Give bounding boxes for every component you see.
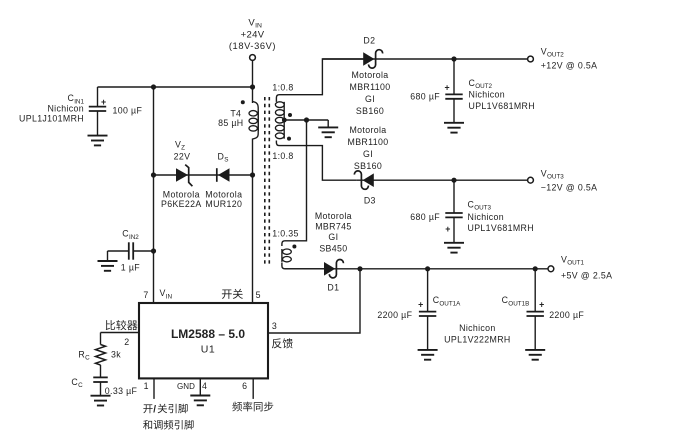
wire D1 row — [285, 268, 548, 270]
svg-text:+: + — [445, 224, 451, 234]
label CC value — [105, 386, 138, 396]
svg-text:7: 7 — [143, 290, 148, 300]
label COUT3 part — [468, 223, 534, 233]
ground under CIN2 — [98, 261, 118, 271]
label DS — [218, 151, 229, 163]
label VZ — [175, 139, 185, 151]
svg-text:1:0.8: 1:0.8 — [272, 83, 293, 93]
label VIN voltage — [241, 30, 265, 41]
svg-text:6: 6 — [242, 381, 247, 391]
svg-text:1: 1 — [144, 381, 149, 391]
zener VZ P6KE22A — [176, 165, 192, 187]
label D2 Motorola — [351, 70, 388, 80]
svg-text:UPL1V222MRH: UPL1V222MRH — [444, 334, 510, 344]
label COUT1 Nichicon — [459, 323, 496, 333]
svg-text:2200 µF: 2200 µF — [549, 310, 584, 320]
svg-text:MBR745: MBR745 — [315, 222, 351, 232]
svg-text:Motorola: Motorola — [349, 125, 386, 135]
label U1 name — [171, 327, 245, 341]
label D2 — [363, 36, 375, 46]
svg-text:+: + — [101, 97, 107, 107]
label CIN1 Nichicon — [47, 103, 84, 113]
svg-text:UPL1V681MRH: UPL1V681MRH — [468, 223, 534, 233]
svg-text:2200 µF: 2200 µF — [377, 310, 412, 320]
wire D2 row — [322, 58, 527, 60]
label D1 GI — [328, 232, 338, 242]
wire tertiary bottom — [282, 263, 324, 269]
capacitor COUT2 — [445, 59, 462, 123]
svg-text:3k: 3k — [111, 349, 121, 359]
label COUT2 — [469, 78, 493, 90]
label CC — [71, 377, 83, 389]
wire feedback — [269, 269, 360, 333]
svg-text:Motorola: Motorola — [351, 70, 388, 80]
svg-text:4: 4 — [202, 381, 207, 391]
svg-text:5: 5 — [256, 290, 261, 300]
label "和调频引脚" — [143, 420, 194, 430]
wire switch rail lower — [252, 139, 254, 304]
node COUT1B junction — [533, 266, 538, 271]
svg-text:D1: D1 — [327, 283, 339, 293]
label RC value — [111, 349, 121, 359]
svg-text:MUR120: MUR120 — [205, 199, 242, 209]
capacitor COUT1A — [419, 269, 436, 350]
node secondary tap coil — [282, 118, 287, 123]
ground under pin4 — [190, 396, 210, 406]
terminal VOUT2 — [528, 56, 534, 62]
label VZ Motorola — [163, 189, 200, 199]
label U1 ref — [201, 343, 215, 355]
svg-text:GI: GI — [363, 149, 373, 159]
label D3 — [364, 195, 376, 205]
transformer T4 core — [265, 97, 270, 267]
wire VIN stub — [252, 60, 254, 87]
wire snubber row — [154, 174, 253, 176]
svg-text:2: 2 — [124, 337, 129, 347]
node snubber right — [250, 172, 255, 177]
label D2 SB160 — [356, 106, 384, 116]
label T4 value — [218, 118, 243, 128]
svg-text:GND: GND — [177, 382, 195, 391]
label DS Motorola — [205, 189, 242, 199]
label VOUT2 — [541, 46, 565, 58]
label COUT1A — [433, 295, 461, 307]
capacitor CIN1 — [89, 87, 106, 135]
svg-text:+: + — [539, 300, 545, 310]
label D3 GI — [363, 149, 373, 159]
ground under CIN1 — [88, 136, 108, 146]
label turns ratio lower — [272, 151, 293, 161]
node snubber left — [151, 172, 156, 177]
label COUT1 part — [444, 334, 510, 344]
label COUT2 Nichicon — [469, 90, 506, 100]
wire pin4 gnd — [199, 379, 201, 395]
label COUT3 plus — [445, 224, 451, 234]
svg-text:100 µF: 100 µF — [113, 105, 143, 115]
svg-text:680 µF: 680 µF — [410, 91, 440, 101]
wire secondary bottom — [276, 141, 356, 181]
node D1 junction — [357, 266, 362, 271]
svg-text:GI: GI — [328, 232, 338, 242]
node COUT2 junction — [451, 56, 456, 61]
node secondary tap junction — [304, 117, 309, 122]
label COUT2 value — [410, 91, 440, 101]
svg-text:+24V: +24V — [241, 30, 265, 41]
label RC — [78, 349, 90, 361]
transformer T4 tertiary winding — [282, 249, 291, 262]
wire switch rail upper — [252, 87, 254, 103]
diode D3 MBR1100 — [354, 171, 373, 189]
svg-text:680 µF: 680 µF — [410, 212, 440, 222]
svg-text:U1: U1 — [201, 343, 215, 355]
label VIN range — [229, 41, 276, 51]
node VIN junction left — [151, 84, 156, 89]
terminal VOUT3 — [528, 177, 534, 183]
svg-text:Nichicon: Nichicon — [469, 90, 506, 100]
capacitor CC — [93, 377, 108, 395]
label D1 SB450 — [319, 243, 347, 253]
label VZ part — [161, 199, 202, 209]
svg-text:Motorola: Motorola — [205, 189, 242, 199]
label pin 7 — [143, 290, 148, 300]
node T4 primary phase dot — [241, 100, 245, 104]
transformer T4 primary winding — [249, 102, 258, 140]
svg-text:SB450: SB450 — [319, 243, 347, 253]
svg-text:0.33 µF: 0.33 µF — [105, 386, 138, 396]
wire tap to tertiary — [282, 120, 307, 246]
svg-text:MBR1100: MBR1100 — [348, 137, 389, 147]
label D1 part — [315, 222, 351, 232]
svg-text:1:0.35: 1:0.35 — [272, 229, 299, 239]
svg-text:+5V @ 2.5A: +5V @ 2.5A — [561, 271, 612, 281]
svg-text:GI: GI — [365, 94, 375, 104]
label VZ value — [174, 151, 191, 161]
label VOUT1 rating — [561, 271, 612, 281]
label pin 2 — [124, 337, 129, 347]
label pin 4 — [202, 381, 207, 391]
wire left VIN rail — [153, 87, 155, 303]
ground under CC — [91, 396, 111, 406]
label DS part — [205, 199, 242, 209]
ground under COUT3 — [444, 243, 464, 253]
svg-text:+: + — [445, 82, 451, 92]
label "频率同步" — [232, 402, 273, 412]
label D3 Motorola — [349, 125, 386, 135]
node VIN junction right — [250, 84, 255, 89]
svg-text:MBR1100: MBR1100 — [350, 82, 391, 92]
wire pin6 stub — [252, 379, 254, 399]
diode D2 MBR1100 — [363, 50, 382, 68]
label "比较器" — [106, 320, 138, 330]
label VOUT2 rating — [541, 60, 598, 70]
svg-text:+12V @ 0.5A: +12V @ 0.5A — [541, 60, 598, 70]
label CIN1 part — [19, 114, 84, 124]
label pin 1 — [144, 381, 149, 391]
svg-text:1:0.8: 1:0.8 — [272, 151, 293, 161]
ground under COUT2 — [444, 123, 464, 133]
capacitor CIN2 — [108, 242, 154, 260]
label turns ratio upper — [272, 83, 293, 93]
label COUT1B value — [549, 310, 584, 320]
ground secondary tap — [318, 127, 338, 137]
wire pin1 stub — [153, 379, 155, 399]
label D2 GI — [365, 94, 375, 104]
label "反馈" — [272, 338, 293, 348]
svg-text:1 µF: 1 µF — [121, 263, 140, 273]
diode DS MUR120 — [217, 168, 230, 182]
svg-text:T4: T4 — [230, 108, 241, 118]
svg-text:−12V @ 0.5A: −12V @ 0.5A — [541, 182, 598, 192]
label COUT1A plus — [418, 300, 424, 310]
label VIN top — [248, 17, 262, 29]
ground under COUT1B — [525, 350, 545, 360]
resistor RC 3k — [96, 333, 106, 378]
label COUT3 value — [410, 212, 440, 222]
label COUT2 plus — [445, 82, 451, 92]
node COUT3 junction — [451, 178, 456, 183]
label D3 part — [348, 137, 389, 147]
label pin 6 — [242, 381, 247, 391]
label COUT1B — [502, 295, 530, 307]
label CIN1 — [67, 93, 84, 105]
node VIN input terminal — [250, 55, 256, 61]
svg-text:85 µH: 85 µH — [218, 118, 243, 128]
capacitor COUT3 — [445, 180, 462, 242]
label VOUT3 — [541, 168, 565, 180]
label pin 3 — [272, 321, 277, 331]
svg-text:SB160: SB160 — [356, 106, 384, 116]
label COUT3 — [468, 199, 492, 211]
wire top horizontal VIN — [98, 86, 253, 88]
diode D1 MBR745 — [324, 259, 343, 277]
label VOUT1 — [561, 254, 585, 266]
svg-text:Nichicon: Nichicon — [459, 323, 496, 333]
node CIN2 junction — [151, 248, 156, 253]
label pin 5 — [256, 290, 261, 300]
svg-text:UPL1J101MRH: UPL1J101MRH — [19, 114, 84, 124]
wire D3 row — [356, 179, 527, 181]
svg-text:LM2588 – 5.0: LM2588 – 5.0 — [171, 327, 245, 341]
label CIN1 value — [113, 105, 143, 115]
svg-text:3: 3 — [272, 321, 277, 331]
label COUT2 part — [469, 101, 535, 111]
wire pin2 — [101, 332, 140, 334]
wire secondary top — [276, 59, 363, 102]
svg-text:+: + — [418, 300, 424, 310]
label COUT3 Nichicon — [468, 212, 505, 222]
label D2 part — [350, 82, 391, 92]
label turns ratio tertiary — [272, 229, 299, 239]
svg-text:SB160: SB160 — [354, 161, 382, 171]
label CIN2 — [122, 229, 139, 241]
label CIN1 plus — [101, 97, 107, 107]
wire secondary tap — [284, 120, 329, 127]
svg-text:Motorola: Motorola — [163, 189, 200, 199]
node secondary phase dot lower — [287, 137, 291, 141]
svg-text:UPL1V681MRH: UPL1V681MRH — [469, 101, 535, 111]
svg-text:Motorola: Motorola — [315, 211, 352, 221]
svg-text:(18V-36V): (18V-36V) — [229, 41, 276, 51]
terminal VOUT1 — [548, 266, 554, 272]
label pin VIN — [160, 288, 173, 300]
ground under COUT1A — [418, 350, 438, 360]
transformer T4 secondary winding — [275, 102, 284, 139]
label VOUT3 rating — [541, 182, 598, 192]
label D1 Motorola — [315, 211, 352, 221]
label pin GND — [177, 382, 195, 391]
svg-text:Nichicon: Nichicon — [47, 103, 84, 113]
svg-text:P6KE22A: P6KE22A — [161, 199, 202, 209]
svg-text:22V: 22V — [174, 151, 191, 161]
op-amp U1 LM2588 box — [139, 303, 268, 378]
label "开关" — [222, 289, 243, 299]
label CIN2 value — [121, 263, 140, 273]
svg-text:Nichicon: Nichicon — [468, 212, 505, 222]
svg-text:D3: D3 — [364, 195, 376, 205]
node tertiary phase dot — [292, 245, 296, 249]
svg-text:/: / — [153, 404, 156, 415]
label D3 SB160 — [354, 161, 382, 171]
node COUT1A junction — [425, 266, 430, 271]
svg-text:D2: D2 — [363, 36, 375, 46]
node secondary phase dot upper — [288, 113, 292, 117]
label T4 — [230, 108, 241, 118]
label D1 — [327, 283, 339, 293]
label COUT1B plus — [539, 300, 545, 310]
label "开/关引脚" — [143, 404, 187, 416]
capacitor COUT1B — [527, 269, 544, 350]
label COUT1A value — [377, 310, 412, 320]
